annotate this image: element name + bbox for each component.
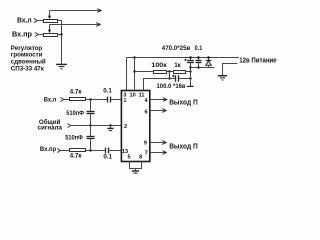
- junction node N1: [89, 98, 91, 100]
- junction VD1/rail: [207, 56, 209, 58]
- wire mute row: [135, 71, 154, 73]
- connector: [61, 97, 64, 101]
- wire: [37, 20, 43, 22]
- svg-text:Выход П: Выход П: [169, 143, 198, 150]
- capacitor C5 100.0*16в: [175, 75, 177, 81]
- junction: [189, 66, 191, 68]
- wire: [86, 150, 106, 152]
- wire to pin 2: [71, 125, 122, 127]
- svg-text:0.1: 0.1: [103, 87, 112, 94]
- wire pin 11 riser: [144, 79, 176, 91]
- resistor R5 100к: [154, 71, 167, 74]
- resistor R6 1к: [174, 71, 186, 74]
- wire line1 wiper-left to amp: [50, 10, 101, 12]
- svg-text:Выход П: Выход П: [169, 100, 198, 107]
- wire to pin 13: [109, 150, 122, 152]
- ground supply: [218, 75, 227, 77]
- svg-text:Вх.л: Вх.л: [17, 18, 32, 25]
- svg-text:Вх.пр: Вх.пр: [12, 31, 32, 38]
- capacitor C7 0.1 supply: [198, 58, 200, 61]
- plus sign C5: [172, 75, 175, 78]
- junction pin10/rail: [133, 56, 135, 58]
- wire pin 4 output: [150, 99, 166, 101]
- wire node M drop: [169, 72, 171, 79]
- svg-text:0.1: 0.1: [195, 45, 203, 52]
- junction node M: [168, 70, 170, 72]
- potentiometer R1 СП3-33 (left): [44, 20, 58, 23]
- wire: [64, 99, 70, 101]
- wire: [186, 71, 191, 73]
- connector input right: [35, 32, 38, 36]
- resistor R3 4.7к: [70, 98, 86, 101]
- junction pin10/mute row: [133, 70, 135, 72]
- svg-text:100.0 *16в: 100.0 *16в: [157, 83, 186, 90]
- ground signal common: [110, 126, 112, 128]
- ground mute RC: [187, 85, 194, 87]
- connector input left: [34, 18, 37, 22]
- wire pin 6 output: [150, 110, 166, 112]
- plus sign C6: [184, 59, 186, 61]
- wire pin 9 output: [150, 142, 166, 144]
- capacitor C2 510пФ: [90, 100, 92, 112]
- wire pin5/pin8 ground link: [130, 162, 142, 169]
- resistor R4 4.7к: [70, 149, 86, 152]
- wire pin 10 riser: [134, 58, 136, 91]
- svg-text:2: 2: [124, 124, 127, 130]
- svg-text:510пФ: 510пФ: [65, 135, 83, 142]
- svg-text:Вх.л: Вх.л: [44, 96, 57, 103]
- junction pots common: [60, 33, 62, 35]
- junction: [168, 77, 170, 79]
- svg-text:100к: 100к: [151, 62, 167, 69]
- svg-text:Вх.пр: Вх.пр: [40, 146, 56, 153]
- svg-text:510пФ: 510пФ: [66, 110, 84, 117]
- junction C7/rail: [197, 56, 199, 58]
- wire: [61, 150, 70, 152]
- svg-text:громкости: громкости: [11, 52, 43, 59]
- svg-text:6: 6: [144, 109, 147, 115]
- ground under potentiometers: [56, 63, 67, 65]
- potentiometer R2 СП3-33 (right): [44, 34, 58, 37]
- wire pin 7 output: [150, 152, 166, 154]
- svg-text:СП3-33 47к: СП3-33 47к: [11, 65, 45, 72]
- svg-text:12в Питание: 12в Питание: [239, 58, 277, 65]
- svg-text:0.1: 0.1: [103, 153, 112, 160]
- junction: [189, 77, 191, 79]
- wire vertical ground branch: [190, 63, 192, 87]
- junction ground tap: [109, 124, 111, 126]
- svg-text:4: 4: [144, 98, 148, 104]
- svg-text:5: 5: [128, 154, 131, 160]
- wire center drop: [135, 169, 137, 171]
- svg-text:1: 1: [123, 98, 126, 104]
- svg-text:10: 10: [129, 93, 135, 99]
- junction C6/rail: [189, 56, 191, 58]
- wire +12V rail: [127, 57, 239, 59]
- junction C7/ground line: [197, 66, 199, 68]
- connector: [68, 123, 71, 127]
- ground IC power: [132, 170, 139, 172]
- connector: [57, 148, 60, 152]
- op-amp U1 (stereo power amplifier IC): [121, 91, 149, 162]
- svg-text:470.0*25в: 470.0*25в: [162, 45, 191, 52]
- junction N2: [89, 124, 91, 126]
- wire pot2 right lead: [58, 34, 62, 36]
- wire: [86, 99, 108, 101]
- junction N3: [89, 149, 91, 151]
- capacitor C1 0.1: [107, 97, 109, 103]
- wire pot1 right lead: [58, 21, 62, 64]
- wire: [167, 71, 174, 73]
- svg-text:4.7к: 4.7к: [70, 88, 83, 95]
- wire caps ground line: [191, 67, 215, 69]
- svg-text:9: 9: [144, 141, 147, 147]
- svg-text:4.7к: 4.7к: [70, 153, 83, 160]
- wiper arrow R1: [49, 11, 51, 16]
- wire to pin 1: [111, 99, 122, 101]
- svg-text:7: 7: [145, 150, 148, 156]
- svg-text:1к: 1к: [174, 62, 181, 69]
- capacitor C6 470.0*25в: [190, 58, 192, 61]
- capacitor C4 0.1: [105, 148, 107, 154]
- wire supply minus: [223, 64, 238, 76]
- diode VD1: [208, 58, 210, 61]
- wire: [38, 34, 43, 36]
- wire pin 3 riser: [126, 58, 128, 91]
- wire line2 wiper-right to amp: [50, 24, 100, 26]
- wiper arrow R2: [49, 25, 51, 30]
- svg-text:8: 8: [139, 154, 142, 160]
- svg-text:сигнала: сигнала: [38, 124, 63, 131]
- capacitor C3 510пФ: [90, 126, 92, 137]
- wire: [179, 78, 191, 80]
- junction: [189, 70, 191, 72]
